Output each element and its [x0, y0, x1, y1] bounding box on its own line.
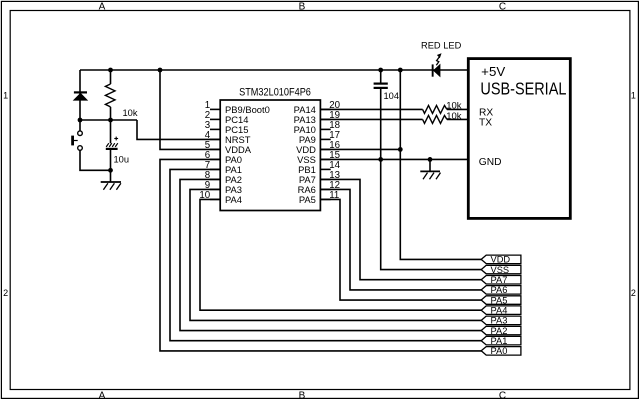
svg-text:PA3: PA3 [491, 316, 508, 326]
svg-text:C: C [499, 2, 506, 13]
svg-text:10u: 10u [114, 154, 130, 164]
svg-text:GND: GND [479, 157, 502, 168]
svg-text:PA2: PA2 [491, 326, 508, 336]
svg-text:VSS: VSS [491, 265, 510, 275]
svg-text:PA5: PA5 [299, 194, 316, 205]
svg-text:10k: 10k [123, 108, 138, 118]
svg-text:VDD: VDD [491, 255, 511, 265]
svg-text:2: 2 [3, 288, 8, 298]
svg-text:PA1: PA1 [491, 336, 508, 346]
svg-text:10k: 10k [446, 100, 462, 111]
svg-text:2: 2 [631, 288, 636, 298]
svg-text:STM32L010F4P6: STM32L010F4P6 [239, 86, 311, 98]
svg-text:RED LED: RED LED [421, 40, 462, 50]
svg-text:PA7: PA7 [491, 275, 508, 285]
svg-text:A: A [99, 391, 106, 400]
svg-text:USB-SERIAL: USB-SERIAL [480, 79, 566, 99]
svg-text:104: 104 [384, 91, 400, 101]
svg-text:PA6: PA6 [491, 285, 508, 295]
svg-text:C: C [499, 391, 506, 400]
svg-text:B: B [299, 391, 306, 400]
svg-text:A: A [99, 2, 106, 13]
svg-text:PA4: PA4 [225, 194, 242, 205]
svg-text:PA5: PA5 [491, 295, 508, 305]
svg-text:TX: TX [479, 118, 492, 129]
svg-text:PA4: PA4 [491, 306, 508, 316]
svg-text:10k: 10k [446, 111, 462, 122]
svg-text:1: 1 [3, 90, 8, 100]
svg-text:B: B [299, 2, 306, 13]
svg-text:+5V: +5V [481, 64, 505, 79]
svg-text:1: 1 [631, 90, 636, 100]
svg-text:PA0: PA0 [491, 346, 508, 356]
